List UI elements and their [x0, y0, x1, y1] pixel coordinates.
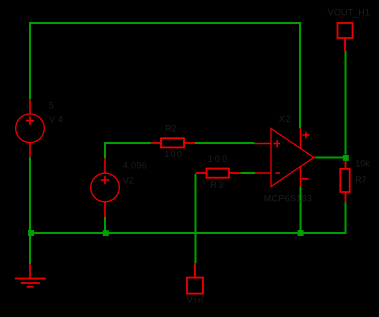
- wire ground node down to ground symbol: [29, 233, 31, 264]
- resistor R2: [151, 138, 195, 147]
- tag VOUT_H1: [338, 23, 353, 51]
- svg-text:Vin: Vin: [187, 295, 205, 305]
- junction node at V1 / ground: [28, 230, 34, 236]
- wire output node up to VOUT tag: [345, 51, 347, 155]
- svg-text:V4: V4: [49, 114, 66, 124]
- tag Vin: [187, 263, 203, 294]
- wire V2 bottom to ground rail: [104, 217, 106, 233]
- op-amp X2: [255, 128, 317, 186]
- svg-text:5: 5: [49, 101, 54, 111]
- resistor R7: [340, 161, 349, 202]
- resistor R3: [196, 169, 241, 178]
- wire R1 right to op-amp - input: [240, 172, 255, 174]
- wire left vertical V1 bottom to ground node: [29, 157, 31, 233]
- svg-text:R7: R7: [355, 175, 367, 185]
- svg-text:R3: R3: [210, 180, 225, 190]
- wire R1 left down to Vin tag: [195, 174, 197, 263]
- svg-text:4.096: 4.096: [123, 160, 148, 170]
- svg-text:100: 100: [208, 154, 230, 164]
- svg-text:100: 100: [164, 149, 183, 159]
- svg-text:MCP6S183: MCP6S183: [264, 194, 312, 204]
- wire bottom rail: [30, 202, 346, 233]
- svg-text:R2: R2: [165, 123, 177, 133]
- wire op-amp output to node: [315, 157, 343, 159]
- svg-text:VOUT_H1: VOUT_H1: [328, 8, 370, 18]
- voltage source V2: [91, 158, 120, 217]
- wire top loop from V1 to op-amp V+: [30, 23, 300, 128]
- svg-text:X2: X2: [279, 114, 292, 124]
- junction node at op-amp output: [343, 155, 349, 161]
- wire R2 right to op-amp + input: [195, 142, 255, 144]
- junction node at op-amp V- / ground rail: [298, 230, 304, 236]
- ground: [15, 264, 46, 287]
- junction node at V2 / ground rail: [103, 230, 109, 236]
- svg-text:10k: 10k: [355, 158, 370, 168]
- voltage source V4: [16, 99, 45, 158]
- svg-text:V2: V2: [123, 176, 134, 186]
- wire op-amp V- down to ground rail: [300, 187, 302, 231]
- wire V2 top to R2 left: [105, 143, 151, 158]
